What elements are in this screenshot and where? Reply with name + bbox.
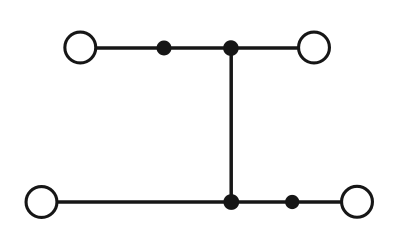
junction: bottom conductor / bridge <box>223 194 239 210</box>
terminal 3 (bottom-left clamp circle) <box>26 187 57 218</box>
connection dot on top conductor <box>157 41 172 56</box>
wire: vertical bridge <box>229 47 233 204</box>
terminal 2 (top-right clamp circle) <box>299 32 330 63</box>
terminal 4 (bottom-right clamp circle) <box>342 186 373 217</box>
wire: bottom conductor <box>56 200 342 203</box>
wire: top conductor <box>95 46 300 49</box>
junction: top conductor / bridge <box>223 40 239 56</box>
terminal 1 (top-left clamp circle) <box>65 32 96 63</box>
connection dot on bottom conductor <box>285 195 299 209</box>
